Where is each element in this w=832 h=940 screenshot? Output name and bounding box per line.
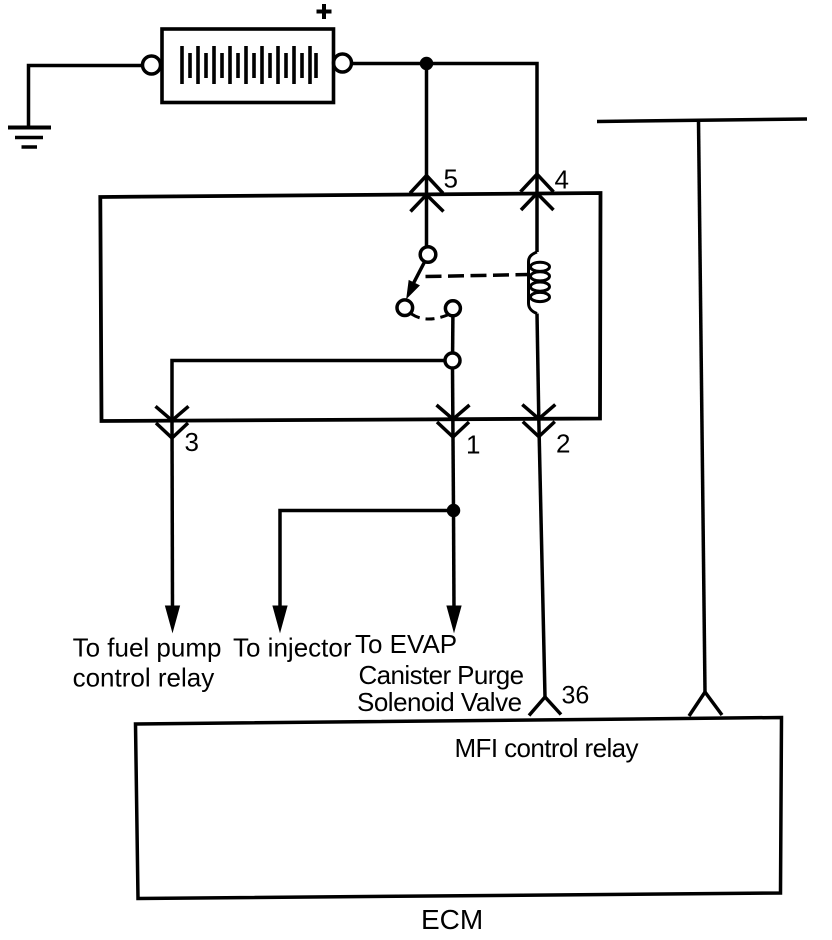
switch dashed travel arc (412, 314, 448, 319)
ground (8, 128, 51, 148)
wire battery negative to ground (29, 66, 144, 128)
node terminal circle (445, 353, 460, 368)
junction node below pin 1 (449, 506, 459, 516)
dashed mechanical link switch to coil (426, 275, 530, 277)
junction node at battery positive (422, 59, 432, 69)
wire junction to injector branch (280, 511, 454, 613)
svg-text:5: 5 (444, 164, 458, 194)
ECM box (136, 718, 782, 899)
connector pin 1 (437, 405, 470, 437)
svg-text:To injector: To injector (233, 633, 352, 663)
wire battery positive to relay (352, 64, 537, 253)
svg-text:control relay: control relay (73, 663, 215, 693)
svg-text:1: 1 (466, 430, 480, 460)
relay box (100, 193, 600, 421)
connector ECM right (689, 692, 722, 716)
ECM ground rail (597, 119, 807, 122)
arrow to injector (273, 606, 287, 632)
svg-text:36: 36 (562, 682, 590, 710)
wire node down through pin 1 to junction (453, 368, 454, 511)
switch contact left (397, 300, 413, 316)
battery B1 (143, 29, 352, 103)
connector pin 4 (521, 174, 554, 210)
wire junction down to EVAP arrow (452, 511, 456, 613)
battery + polarity mark (317, 4, 332, 19)
switch contact right (445, 301, 460, 316)
arrow to fuel pump control relay (166, 606, 180, 632)
svg-text:MFI control relay: MFI control relay (455, 733, 639, 763)
switch arm arrowhead (407, 281, 419, 297)
svg-text:To fuel pump: To fuel pump (73, 633, 222, 663)
svg-text:2: 2 (556, 429, 570, 459)
connector pin 2 (522, 405, 555, 437)
connector pin 3 (156, 406, 189, 438)
wire switch right contact down (451, 316, 455, 353)
connector pin 5 (410, 176, 444, 212)
svg-text:3: 3 (185, 427, 199, 457)
wire junction down to pin 5 (425, 64, 429, 248)
connector pin 36 (529, 697, 561, 716)
relay coil L1 (529, 252, 550, 314)
switch arm (411, 262, 425, 289)
svg-text:Canister Purge: Canister Purge (359, 660, 524, 690)
svg-text:To EVAP: To EVAP (355, 629, 457, 659)
switch SW1 common terminal (420, 247, 436, 263)
wire coil to pin 2 (537, 314, 539, 419)
wire node left (172, 361, 445, 422)
svg-text:ECM: ECM (421, 904, 483, 935)
wire rail down to ECM (699, 121, 706, 693)
wire pin 2 down to ECM pin 36 (539, 419, 545, 697)
svg-text:4: 4 (555, 165, 569, 195)
arrow to EVAP solenoid valve (447, 606, 461, 632)
wire pin 3 down to fuel pump relay arrow (170, 421, 174, 612)
svg-text:Solenoid Valve: Solenoid Valve (357, 687, 522, 717)
